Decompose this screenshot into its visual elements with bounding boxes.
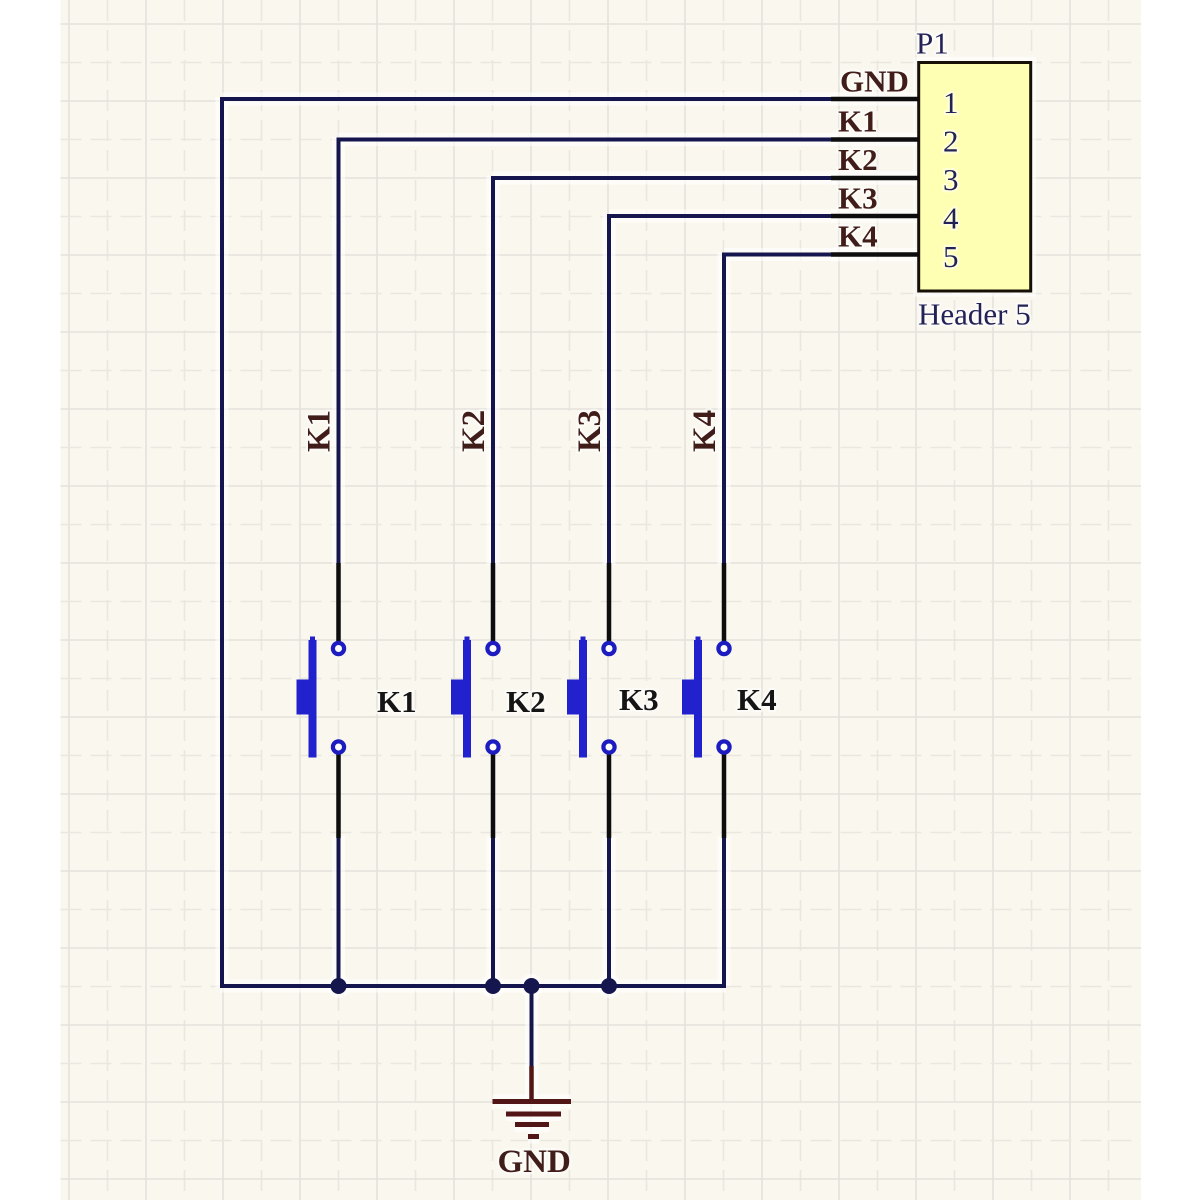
net label K4 [838,219,878,254]
designator K3 (button) [619,682,659,717]
designator K1 (button) [377,684,417,719]
wire K4 vertical upper [722,253,726,566]
vertical net label K1 [302,410,338,452]
wire K4 horizontal to header pin 5 [724,253,836,257]
pin 5 stub of P1 [831,252,919,257]
pin number 3 [943,162,959,197]
svg-text:K2: K2 [838,142,878,177]
wire K1 horizontal to header pin 2 [339,138,837,142]
designator P1 [916,26,949,61]
wire GND tap vertical [530,984,534,1068]
svg-text:K2: K2 [506,684,546,719]
svg-text:K4: K4 [687,410,723,452]
wire K1 vertical upper [337,138,341,566]
svg-text:GND: GND [498,1144,571,1180]
junction at K3/bus [601,978,617,994]
svg-text:3: 3 [943,162,959,197]
svg-text:5: 5 [943,239,959,274]
wire K2 vertical lower [491,836,495,986]
connector P1 body [919,63,1031,292]
vertical net label K4 [687,410,723,452]
wire K1 vertical lower [337,836,341,986]
junction at K2/bus [485,978,501,994]
net label K2 [838,142,878,177]
svg-text:1: 1 [943,85,959,120]
svg-text:2: 2 [943,124,959,159]
vertical net label K3 [572,410,608,452]
push button K4 [682,563,730,838]
net label K3 [838,181,878,216]
wire K3 vertical lower [607,836,611,986]
push button K3 [567,563,615,838]
svg-text:P1: P1 [916,26,949,61]
power net label GND (bottom) [498,1144,571,1180]
wire K2 vertical upper [491,176,495,565]
svg-text:K4: K4 [737,682,777,717]
wire K3 vertical upper [607,214,611,565]
push button K1 [297,563,345,838]
svg-text:K1: K1 [377,684,417,719]
junction at GND tap/bus [524,978,540,994]
svg-text:Header 5: Header 5 [918,297,1031,332]
ground symbol [493,1066,572,1137]
pin 4 stub of P1 [831,214,919,219]
svg-text:GND: GND [840,64,909,99]
net label GND [840,64,909,99]
pin number 4 [943,201,959,236]
svg-text:K3: K3 [572,410,608,452]
svg-text:4: 4 [943,201,959,236]
value Header 5 [918,297,1031,332]
pin 2 stub of P1 [831,137,919,142]
designator K2 (button) [506,684,546,719]
pin 3 stub of P1 [831,176,919,181]
designator K4 (button) [737,682,777,717]
pin number 2 [943,124,959,159]
push button K2 [451,563,499,838]
wire bottom GND bus [220,984,726,988]
pin 1 stub of P1 [831,97,919,102]
svg-text:K2: K2 [456,410,492,452]
svg-text:K1: K1 [302,410,338,452]
svg-text:K1: K1 [838,104,878,139]
svg-text:K3: K3 [619,682,659,717]
wire GND left vertical [220,97,224,988]
svg-text:K3: K3 [838,181,878,216]
pin number 1 [943,85,959,120]
wire K2 horizontal to header pin 3 [493,176,836,180]
net label K1 [838,104,878,139]
wire K3 horizontal to header pin 4 [609,214,836,218]
wire K4 vertical lower [722,836,726,986]
junction at K1/bus [331,978,347,994]
vertical net label K2 [456,410,492,452]
pin number 5 [943,239,959,274]
wire GND horizontal from left loop to header pin 1 [222,97,836,101]
svg-text:K4: K4 [838,219,878,254]
